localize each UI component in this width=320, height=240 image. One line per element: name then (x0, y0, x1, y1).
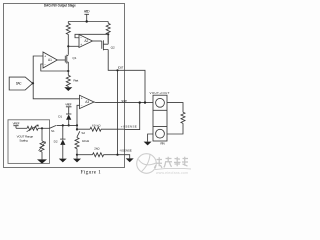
watermark text (154, 157, 191, 170)
wire DAC to A3 plus (33, 83, 79, 99)
svg-text:−: − (80, 36, 82, 40)
svg-text:IOUT: IOUT (118, 66, 124, 70)
wire var-v top (41, 128, 43, 141)
svg-text:VOUT: VOUT (121, 99, 127, 103)
svg-text:Q1: Q1 (72, 56, 76, 60)
ground 10k (73, 155, 81, 163)
node 10k bottom (76, 154, 78, 156)
wire A1 out to Q1 gate (57, 59, 65, 61)
wire A2 plus input (68, 45, 79, 47)
wire R-right top (107, 22, 109, 24)
node D2 branch (62, 124, 64, 126)
node D1 bottom (68, 124, 70, 126)
node A2+ tap (67, 45, 69, 47)
variable resistor vertical (39, 141, 46, 152)
watermark logo (137, 154, 157, 174)
transistor Q2 (102, 40, 115, 50)
switch S1 (50, 126, 57, 133)
wire Rset bottom (67, 85, 69, 88)
svg-text:S2: S2 (81, 131, 85, 135)
node IOUT bottom (116, 154, 118, 156)
node IOUT top (116, 69, 118, 71)
svg-text:VREF: VREF (65, 103, 71, 107)
svg-text:VOUT+IOUT: VOUT+IOUT (150, 91, 170, 95)
VOUT range scaling box (8, 120, 50, 164)
resistor 60k (90, 123, 101, 131)
svg-text:www.elecfans.com: www.elecfans.com (156, 171, 188, 175)
wire A1 minus feedback (41, 64, 69, 71)
svg-text:D2: D2 (54, 139, 58, 143)
node Rset top (67, 70, 69, 72)
border frame (4, 4, 125, 168)
svg-text:A3: A3 (85, 100, 89, 104)
svg-text:DACx760 Output Stage: DACx760 Output Stage (44, 4, 76, 8)
wire RTN (148, 134, 153, 142)
svg-text:Q2: Q2 (111, 46, 115, 50)
wire +VSENSE external (125, 103, 140, 130)
resistor 2k (93, 147, 104, 157)
wire R-right bottom (107, 34, 109, 42)
ground scaling box (37, 159, 47, 163)
ground Rset (64, 87, 72, 91)
op-amp A2 (79, 35, 93, 48)
wire var-v bottom (41, 152, 43, 160)
wire lower row to 2k (77, 154, 93, 156)
svg-text:Rset: Rset (73, 78, 78, 82)
ground D2 (59, 159, 67, 163)
wire load bottom (167, 123, 183, 134)
svg-text:−: − (44, 63, 46, 67)
svg-text:D1: D1 (58, 114, 62, 118)
node lower row (76, 128, 78, 130)
wire A3 minus column (77, 105, 80, 125)
svg-text:Figure 1: Figure 1 (81, 170, 102, 176)
diode D1 (58, 114, 71, 125)
power VREF bar in box (13, 126, 18, 129)
svg-text:AVDD: AVDD (84, 10, 90, 14)
svg-text:2 kΩ: 2 kΩ (94, 147, 100, 151)
svg-text:60 kΩ: 60 kΩ (92, 123, 101, 127)
wire A3 output VOUT row (94, 101, 153, 104)
terminal block (153, 95, 167, 141)
node DAC out (32, 82, 34, 84)
ground -VSENSE (126, 158, 134, 162)
svg-text:-VSENSE: -VSENSE (119, 149, 132, 153)
diode D2 (54, 125, 66, 158)
wire 60k to border (101, 128, 125, 130)
wire A1 plus from DAC column (33, 56, 43, 83)
wire -VSENSE external to ground (125, 155, 130, 159)
op-amp A3 (80, 95, 95, 108)
svg-text:A2: A2 (84, 39, 88, 43)
wire IOUT bus (117, 70, 119, 154)
svg-text:S1: S1 (51, 129, 55, 133)
node A2 feedback (107, 33, 109, 35)
wire box row (16, 127, 27, 129)
wire A2 output to Q2 gate (93, 40, 102, 42)
resistor R-left (66, 23, 70, 34)
wire Q2 source (107, 34, 109, 44)
ground RTN (144, 142, 152, 146)
resistor Rset (66, 75, 70, 86)
power VREF bar (66, 107, 72, 114)
node upper row end (76, 124, 78, 126)
title (44, 4, 76, 8)
resistor 10k (75, 137, 90, 155)
svg-text:RTN: RTN (160, 142, 164, 146)
op-amp A1 (43, 52, 57, 68)
wire R-left bottom to Q1 drain (67, 34, 69, 55)
wire Q2 drain to IOUT row (108, 50, 125, 71)
svg-text:10 kΩ: 10 kΩ (82, 139, 90, 143)
wire Q1 source down (67, 62, 69, 75)
wire A2 feedback loop (75, 34, 108, 37)
svg-text:Scaling: Scaling (19, 138, 28, 142)
wire S1 to A3 column row (57, 124, 78, 126)
wire load top (167, 103, 183, 113)
switch S2 (77, 129, 85, 137)
node scaling (41, 127, 43, 129)
node IOUT joins VOUT (144, 101, 146, 103)
DAC block (9, 77, 32, 90)
wire R-left top (67, 22, 69, 24)
svg-text:+: + (80, 43, 82, 47)
wire var-h to node (38, 127, 50, 129)
svg-text:DAC: DAC (16, 82, 22, 86)
svg-text:A1: A1 (48, 58, 52, 62)
power AVDD (84, 14, 89, 22)
resistor R-right (106, 23, 110, 34)
wire IOUT external (125, 70, 145, 102)
svg-text:VREF: VREF (13, 122, 20, 126)
wire AVDD rail (68, 21, 108, 23)
wire 2k to border (104, 154, 125, 156)
svg-text:+VSENSE: +VSENSE (121, 125, 137, 129)
svg-text:−: − (81, 104, 83, 108)
transistor Q1 (65, 55, 77, 64)
node +VSENSE tap (139, 101, 141, 103)
variable resistor horizontal (27, 125, 39, 132)
wire jog to lower row (77, 125, 90, 129)
svg-text:+: + (44, 54, 46, 58)
svg-text:+: + (81, 97, 83, 101)
resistor Rload (181, 112, 185, 123)
